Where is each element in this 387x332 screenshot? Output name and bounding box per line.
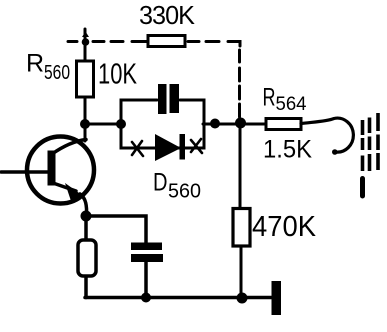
svg-text:R: R [263,84,276,112]
svg-text:470K: 470K [252,211,317,243]
svg-text:330K: 330K [139,0,196,30]
svg-text:564: 564 [276,94,307,115]
svg-text:R: R [26,50,44,78]
svg-text:10K: 10K [98,59,137,91]
svg-text:560: 560 [44,62,70,84]
svg-text:1.5K: 1.5K [263,136,312,164]
svg-text:D: D [153,169,168,197]
svg-text:560: 560 [168,181,201,203]
